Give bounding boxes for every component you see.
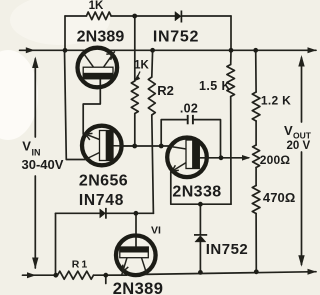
- svg-text:470Ω: 470Ω: [263, 190, 296, 205]
- svg-text:2N389: 2N389: [113, 280, 164, 295]
- svg-text:30-40V: 30-40V: [22, 157, 64, 172]
- svg-text:20 V: 20 V: [287, 140, 311, 152]
- svg-text:1K: 1K: [89, 0, 104, 12]
- svg-text:2N338: 2N338: [172, 184, 221, 201]
- svg-text:OUT: OUT: [293, 131, 312, 141]
- svg-text:R2: R2: [157, 83, 174, 98]
- svg-text:1.2 K: 1.2 K: [261, 94, 291, 108]
- svg-text:200Ω: 200Ω: [260, 153, 291, 167]
- svg-text:2N389: 2N389: [77, 29, 125, 46]
- svg-text:R1: R1: [72, 259, 89, 271]
- svg-text:1.5 K: 1.5 K: [199, 79, 231, 93]
- svg-text:V: V: [284, 123, 293, 138]
- svg-text:1K: 1K: [134, 60, 149, 72]
- svg-text:.02: .02: [180, 102, 198, 116]
- svg-text:IN752: IN752: [206, 241, 249, 258]
- svg-text:IN752: IN752: [153, 28, 199, 45]
- svg-text:2N656: 2N656: [79, 173, 128, 190]
- svg-text:VI: VI: [151, 225, 161, 237]
- svg-text:V: V: [22, 138, 31, 153]
- svg-text:IN748: IN748: [79, 192, 124, 209]
